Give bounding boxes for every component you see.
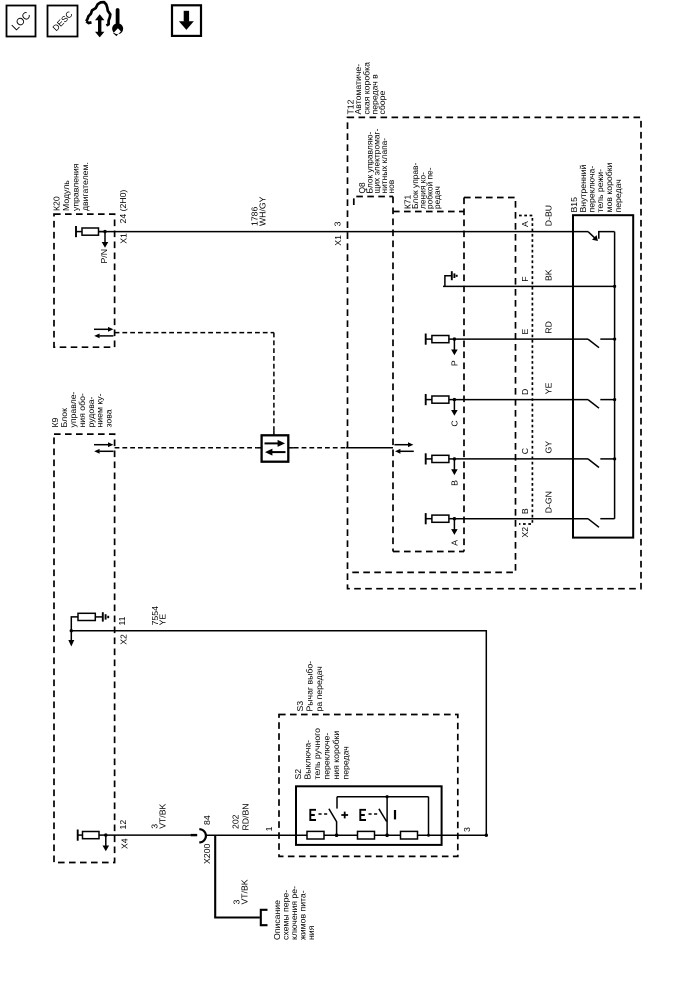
- signal label A: [450, 540, 460, 546]
- serial bus stub right of gateway: [288, 447, 294, 449]
- svg-text:202: 202: [231, 814, 241, 829]
- wire D-GN row B: [454, 518, 588, 520]
- serial data bus from K20 (dashed): [115, 332, 274, 334]
- S2 right bus drop: [427, 797, 430, 837]
- B15 switch row C: [588, 457, 616, 467]
- icon LOC button: [7, 6, 36, 37]
- svg-text:F: F: [520, 276, 530, 281]
- gear selector S3 box: [279, 715, 458, 857]
- svg-text:GY: GY: [544, 441, 554, 454]
- manual shift switch S2 box: [296, 786, 442, 845]
- label K9 Блок управления оборудованием кузова: [50, 391, 113, 427]
- wire 7554 YE from K9 X2-11 to S3 pin 3: [71, 631, 486, 835]
- wire YE row D: [454, 399, 588, 401]
- svg-text:12: 12: [118, 820, 128, 830]
- wire label 1786: [249, 207, 259, 226]
- B15 switch row D: [588, 398, 616, 408]
- svg-text:1: 1: [264, 826, 274, 831]
- K9 output driver with ground, pin X2-11: [68, 613, 102, 646]
- connector X2 boundary (T12 internal): [519, 216, 532, 525]
- svg-text:B: B: [450, 480, 460, 486]
- wire label VT/BK: [157, 803, 167, 828]
- svg-text:11: 11: [117, 616, 127, 625]
- pin label E (X2): [520, 329, 530, 335]
- pin label B (X2): [520, 508, 530, 514]
- svg-text:передач: передач: [613, 179, 623, 212]
- svg-text:ра передач: ра передач: [314, 666, 324, 711]
- svg-text:нов: нов: [386, 179, 396, 193]
- wire label 3 (branch): [232, 900, 242, 905]
- label Q8 Блок управляющих электромагнитных клапанов: [357, 128, 396, 193]
- svg-text:A: A: [450, 540, 460, 546]
- wire label 7554: [150, 606, 160, 625]
- wire 3 VT/BK from K9 X4-12 to X200: [106, 834, 191, 836]
- svg-text:24 (2H0): 24 (2H0): [118, 190, 128, 224]
- transmission assembly T12 box: [348, 117, 642, 588]
- svg-text:P: P: [450, 360, 460, 366]
- label K71 Блок управления коробкой передач: [403, 162, 442, 209]
- connector label X1 (K20): [119, 233, 129, 244]
- pin label 24 (2H0): [118, 190, 128, 224]
- svg-text:тель ручного: тель ручного: [312, 728, 322, 780]
- svg-text:X2: X2: [119, 634, 129, 645]
- svg-text:RD: RD: [544, 321, 554, 334]
- K71 pull-up component row B: [426, 453, 458, 475]
- chassis ground symbol (K9): [103, 612, 108, 621]
- B15 switch row A (with wiper arrow): [588, 232, 615, 241]
- svg-text:S3: S3: [295, 701, 305, 712]
- pin label C (X2): [520, 448, 530, 454]
- svg-text:ния: ния: [306, 925, 316, 940]
- svg-text:A: A: [520, 221, 530, 227]
- serial bus inside T12 (solid): [346, 447, 393, 449]
- svg-text:C: C: [520, 448, 530, 454]
- resistor (S2 middle): [358, 831, 375, 839]
- B15 internal bus: [614, 232, 616, 519]
- svg-text:двигателем.: двигателем.: [80, 162, 90, 211]
- wire 1786 WH/GY from K20 X1-24 to T12 X1-3: [99, 231, 589, 233]
- BCM K9 box: [54, 434, 115, 862]
- connector label X2 (K9): [119, 634, 129, 645]
- svg-text:X200: X200: [202, 844, 212, 864]
- serial data symbol in K20: [94, 327, 113, 338]
- signal label B: [450, 480, 460, 486]
- svg-text:S2: S2: [293, 769, 303, 780]
- TCM K71 box: [393, 197, 464, 552]
- connector label X4 (K9): [120, 838, 130, 849]
- signal label P: [450, 360, 460, 366]
- icon vehicle-outline with up-down arrow and wrench: [86, 2, 123, 37]
- label S2 Выключатель ручного переключения коробки передач: [293, 728, 351, 780]
- svg-text:YE: YE: [158, 614, 168, 626]
- svg-text:X4: X4: [120, 838, 130, 849]
- wire GY row C: [454, 458, 588, 460]
- pin label F (X2): [520, 276, 530, 281]
- svg-text:передач: передач: [341, 746, 351, 779]
- off-page reference bracket: [261, 910, 268, 925]
- svg-text:BK: BK: [544, 269, 554, 281]
- serial data bus vertical segment: [273, 333, 275, 436]
- wire label VT/BK (branch): [240, 879, 250, 904]
- serial bus stub left of gateway: [256, 447, 262, 449]
- svg-text:3: 3: [462, 827, 472, 832]
- K71 pull-up component row C: [426, 394, 458, 416]
- wire 202 RD/BN from X200 to S3 pin 1: [206, 834, 296, 836]
- svg-text:E: E: [520, 329, 530, 335]
- wire BK row F: [443, 285, 615, 287]
- wire label WH/GY: [258, 196, 268, 226]
- svg-text:Рычаг выбо-: Рычаг выбо-: [305, 661, 315, 712]
- connector label X200: [202, 844, 212, 864]
- wire color label YE: [544, 382, 554, 394]
- svg-text:WH/GY: WH/GY: [258, 196, 268, 226]
- wire label 202: [231, 814, 241, 829]
- wire color label RD: [544, 321, 554, 334]
- connector label X2 (T12): [520, 527, 530, 538]
- pin label 3 (T12 X1): [333, 221, 343, 226]
- svg-text:84: 84: [202, 815, 212, 825]
- pin label 84: [202, 815, 212, 825]
- wire label YE: [158, 614, 168, 626]
- svg-text:Модуль: Модуль: [61, 180, 71, 211]
- resistor (S2 left): [307, 831, 324, 839]
- svg-text:B: B: [520, 508, 530, 514]
- label S3 Рычаг выбора передач: [295, 661, 324, 712]
- S2 internal wire: [296, 834, 486, 836]
- svg-text:Выключа-: Выключа-: [303, 740, 313, 780]
- K71 ground (row F): [445, 276, 451, 287]
- K71 pull-up component row A: [426, 513, 458, 535]
- label T12 Автоматическая коробка передач в сборе: [345, 62, 387, 115]
- label K20 Модуль управления двигателем.: [52, 162, 90, 211]
- svg-text:VT/BK: VT/BK: [240, 879, 250, 904]
- svg-text:редач: редач: [432, 186, 442, 209]
- svg-text:сборе: сборе: [377, 91, 387, 115]
- svg-text:D-GN: D-GN: [544, 491, 554, 513]
- svg-text:3: 3: [333, 221, 343, 226]
- pin label A (X2): [520, 221, 530, 227]
- svg-text:зова: зова: [103, 409, 113, 427]
- label P/N: [99, 249, 109, 263]
- icon DESC button: [48, 6, 78, 37]
- svg-text:RD/BN: RD/BN: [241, 803, 251, 830]
- wire color label D-BU: [544, 205, 554, 226]
- wire label RD/BN: [241, 803, 251, 830]
- svg-text:переключе-: переключе-: [322, 733, 332, 780]
- resistor (S2 right): [401, 831, 418, 839]
- pin label 1 (S3): [264, 826, 274, 831]
- switch S2-a (+): [309, 797, 348, 837]
- B15 row F junction: [613, 285, 616, 288]
- svg-text:X1: X1: [119, 233, 129, 244]
- B15 switch row E: [588, 338, 616, 348]
- pin label 12: [118, 820, 128, 830]
- pin label D (X2): [520, 389, 530, 395]
- wire label 3: [149, 824, 159, 829]
- chassis ground symbol (K71): [452, 271, 457, 280]
- svg-text:VT/BK: VT/BK: [157, 803, 167, 828]
- wire color label BK: [544, 269, 554, 281]
- solenoid valve body Q8 box: [350, 197, 516, 573]
- pin label 11: [117, 616, 127, 625]
- svg-text:YE: YE: [544, 382, 554, 394]
- svg-text:D-BU: D-BU: [544, 205, 554, 226]
- wire color label D-GN: [544, 491, 554, 513]
- svg-text:X2: X2: [520, 527, 530, 538]
- wire RD row E: [454, 338, 588, 340]
- switch S2-b (-): [359, 795, 395, 837]
- inline connector X200: [191, 829, 206, 842]
- K9 output driver pin X4-12: [78, 830, 109, 852]
- K20 internal driver component (coil) pin X1-24: [76, 226, 108, 248]
- serial data symbol in K71: [394, 442, 413, 453]
- serial bus K9 to gateway (dashed): [115, 447, 257, 449]
- svg-text:D: D: [520, 389, 530, 395]
- label B15 Внутренний переключатель режимов коробки передач: [569, 162, 623, 212]
- serial bus gateway to T12 (dashed): [294, 447, 346, 449]
- ECM K20 box: [54, 214, 115, 347]
- S2 top bus: [337, 796, 429, 798]
- signal label C: [450, 420, 460, 426]
- svg-text:C: C: [450, 420, 460, 426]
- K71 pull-up component row P: [426, 334, 458, 356]
- pin label 3 (S3 right): [462, 827, 472, 832]
- B15 switch row B: [588, 519, 615, 528]
- wire D-BU row A inside T12: [0, 0, 1, 1]
- serial data gateway box: [262, 435, 289, 461]
- wire color label GY: [544, 441, 554, 454]
- svg-text:ния коробки: ния коробки: [331, 731, 341, 780]
- wire 3 VT/BK branch to mode description: [215, 835, 260, 917]
- svg-text:X1: X1: [333, 235, 343, 246]
- connector label X1 (T12): [333, 235, 343, 246]
- svg-text:P/N: P/N: [99, 249, 109, 263]
- label Описание схемы переключения режимов питания: [272, 886, 316, 940]
- internal mode switch B15 box: [573, 215, 633, 537]
- junction 7554/S2 wire: [485, 834, 488, 837]
- serial data symbol in K9: [94, 442, 113, 453]
- icon boxed down-arrow button: [172, 5, 201, 36]
